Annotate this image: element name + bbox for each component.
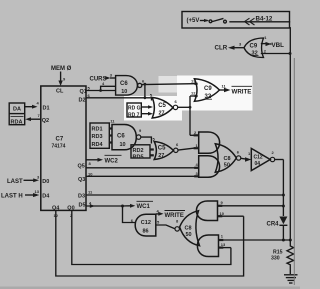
svg-text:13: 13 <box>191 79 196 84</box>
svg-text:(+5V: (+5V <box>187 18 200 24</box>
svg-text:MEM Ø: MEM Ø <box>51 66 72 72</box>
svg-text:Q5: Q5 <box>78 164 85 170</box>
svg-text:WC1: WC1 <box>137 204 151 210</box>
svg-text:WRITE: WRITE <box>165 213 184 219</box>
svg-text:LAST H: LAST H <box>1 194 23 200</box>
svg-text:LAST: LAST <box>7 179 23 185</box>
svg-text:RD5: RD5 <box>133 154 144 160</box>
svg-text:RD3: RD3 <box>92 134 103 140</box>
svg-text:C12: C12 <box>254 155 263 161</box>
svg-text:RD2: RD2 <box>133 148 144 154</box>
svg-text:C8: C8 <box>224 156 231 162</box>
svg-text:10: 10 <box>220 211 225 216</box>
svg-text:27: 27 <box>158 153 164 159</box>
svg-text:04: 04 <box>255 161 261 167</box>
svg-text:RD4: RD4 <box>92 142 104 148</box>
svg-text:DA: DA <box>13 107 21 113</box>
svg-text:50: 50 <box>224 163 230 169</box>
svg-text:Q3: Q3 <box>78 177 85 183</box>
svg-text:74174: 74174 <box>52 144 66 150</box>
svg-text:27: 27 <box>159 111 165 117</box>
svg-text:D4: D4 <box>42 194 50 200</box>
svg-text:50: 50 <box>186 232 192 238</box>
svg-text:10: 10 <box>120 142 126 148</box>
svg-text:C8: C8 <box>185 226 192 232</box>
svg-text:VBL: VBL <box>272 42 285 49</box>
svg-text:C7: C7 <box>56 137 64 143</box>
svg-text:Q1: Q1 <box>80 89 87 95</box>
svg-text:10: 10 <box>121 89 127 95</box>
svg-text:C12: C12 <box>141 220 151 226</box>
svg-text:Q0: Q0 <box>67 206 74 212</box>
svg-text:13: 13 <box>35 189 40 194</box>
svg-text:RDA: RDA <box>11 119 23 125</box>
svg-text:CLR: CLR <box>215 45 228 52</box>
svg-text:C9: C9 <box>250 43 258 49</box>
svg-text:Q2: Q2 <box>42 118 49 124</box>
svg-text:C6: C6 <box>117 134 125 140</box>
svg-text:D1: D1 <box>43 106 50 112</box>
svg-text:CL: CL <box>56 89 64 95</box>
svg-text:CR4: CR4 <box>267 222 280 228</box>
svg-text:D2: D2 <box>79 98 86 104</box>
svg-text:10: 10 <box>88 171 93 176</box>
svg-text:330: 330 <box>271 256 280 262</box>
svg-text:WC2: WC2 <box>105 158 119 164</box>
svg-text:C6: C6 <box>120 81 128 87</box>
svg-text:D3: D3 <box>78 194 85 200</box>
svg-text:86: 86 <box>143 229 149 235</box>
svg-text:13: 13 <box>221 242 226 247</box>
svg-text:C9: C9 <box>204 86 212 92</box>
svg-text:RD1: RD1 <box>92 127 103 133</box>
svg-text:RD G: RD G <box>128 106 141 112</box>
svg-text:B4-12: B4-12 <box>256 16 273 23</box>
svg-text:RD 7: RD 7 <box>128 112 140 118</box>
svg-text:D5: D5 <box>79 203 86 209</box>
svg-text:C5: C5 <box>158 146 166 152</box>
svg-text:C5: C5 <box>158 103 166 109</box>
svg-text:D0: D0 <box>42 179 49 185</box>
svg-text:12: 12 <box>191 91 196 96</box>
svg-text:WRITE: WRITE <box>232 89 252 96</box>
